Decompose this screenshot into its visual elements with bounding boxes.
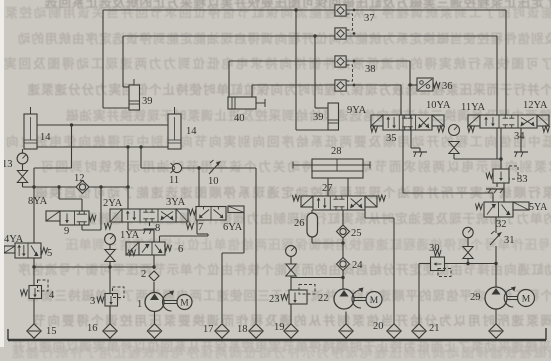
svg-text:27: 27 [322,183,333,194]
svg-text:9YA: 9YA [347,105,367,116]
svg-text:25: 25 [351,228,362,239]
svg-text:3: 3 [90,296,95,307]
svg-text:23: 23 [269,294,280,305]
svg-text:31: 31 [504,235,515,246]
svg-text:39: 39 [313,112,324,123]
svg-text:4: 4 [49,290,55,301]
svg-text:8: 8 [155,223,160,234]
svg-text:30: 30 [429,243,440,254]
svg-text:29: 29 [470,292,481,303]
svg-text:8YA: 8YA [28,196,48,207]
svg-text:16: 16 [87,323,98,334]
svg-text:36: 36 [442,81,453,92]
svg-text:32: 32 [496,219,507,230]
svg-text:2YA: 2YA [103,198,123,209]
svg-text:1: 1 [137,299,142,310]
svg-text:M: M [522,294,531,304]
svg-text:15: 15 [46,326,57,337]
svg-text:33: 33 [517,174,528,185]
svg-text:2: 2 [141,269,146,280]
svg-text:18: 18 [237,324,248,335]
svg-text:3YA: 3YA [166,197,186,208]
svg-text:28: 28 [331,146,342,157]
svg-text:12YA: 12YA [523,100,548,111]
svg-text:39: 39 [142,96,153,107]
svg-text:26: 26 [294,218,305,229]
svg-text:5: 5 [47,248,52,259]
svg-text:37: 37 [364,13,375,24]
svg-text:9: 9 [64,226,69,237]
svg-text:M: M [180,298,189,308]
svg-text:10YA: 10YA [426,100,451,111]
svg-text:4YA: 4YA [4,234,24,245]
svg-text:11YA: 11YA [461,102,486,113]
svg-text:19: 19 [274,322,285,333]
svg-text:12: 12 [74,173,85,184]
svg-text:34: 34 [514,131,525,142]
svg-text:21: 21 [429,323,440,334]
svg-text:6YA: 6YA [223,222,243,233]
svg-text:17: 17 [203,324,214,335]
svg-text:35: 35 [386,133,397,144]
svg-text:22: 22 [318,293,329,304]
svg-text:11: 11 [169,175,179,186]
svg-text:5YA: 5YA [529,202,548,213]
svg-text:14: 14 [40,132,51,143]
svg-text:40: 40 [234,113,245,124]
svg-text:10: 10 [208,176,219,187]
svg-text:M: M [370,296,379,306]
svg-text:14: 14 [186,126,197,137]
svg-text:7: 7 [198,222,203,233]
svg-text:1YA: 1YA [120,230,140,241]
svg-text:6: 6 [178,244,183,255]
svg-text:20: 20 [373,321,384,332]
svg-text:24: 24 [352,260,363,271]
svg-text:38: 38 [365,64,376,75]
